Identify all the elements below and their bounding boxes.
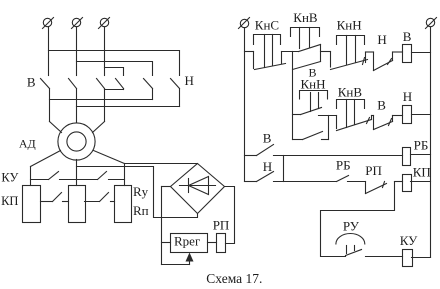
wire phase1 vertical xyxy=(48,28,50,76)
wire phase2 vertical xyxy=(76,28,78,76)
svg-text:Н: Н xyxy=(263,159,272,174)
wire КУ coil to rail xyxy=(412,257,431,259)
svg-text:РБ: РБ xyxy=(414,137,429,152)
wire rung3 xyxy=(274,155,403,157)
contact Н selfhold xyxy=(293,116,329,140)
wire rung4 xyxy=(274,181,337,183)
wire H1 phase1 to contact H5 top xyxy=(49,51,180,76)
wire Rreg left lead xyxy=(162,242,171,244)
wire bus B xyxy=(77,106,180,108)
wire В coil to rail xyxy=(412,52,431,54)
resistor box R3 xyxy=(115,186,132,223)
terminal control left xyxy=(239,18,250,29)
wire РУ to КУ coil xyxy=(366,256,403,258)
contact Н4 xyxy=(144,79,153,100)
svg-text:КнВ: КнВ xyxy=(293,10,318,25)
wire РБ coil to rail xyxy=(411,154,431,156)
wire КП coil to rail xyxy=(411,181,431,183)
contact В selfhold xyxy=(293,62,321,70)
wire stator lead 3 xyxy=(93,122,105,133)
svg-text:РП: РП xyxy=(365,163,382,178)
wire rung1 lead xyxy=(245,52,254,69)
svg-text:Rрег: Rрег xyxy=(174,233,200,248)
wire rung1 КнС to КнВ xyxy=(282,51,299,53)
wire branch vertical xyxy=(292,52,294,140)
wire phase3 vertical xyxy=(104,28,106,76)
contact РП no rung4 xyxy=(366,182,387,194)
pushbutton КнВ nc rung2 xyxy=(337,100,372,131)
wire Н coil to rail xyxy=(412,114,431,116)
terminal L1 xyxy=(43,18,54,29)
svg-text:Rп: Rп xyxy=(133,203,149,218)
wire rung1 КнН to Н xyxy=(366,51,374,53)
svg-text:КП: КП xyxy=(1,194,18,208)
contact РБ no rung4 xyxy=(337,176,366,182)
wire rung1 КнВ to КнН xyxy=(321,51,331,53)
svg-text:В: В xyxy=(263,130,272,145)
terminal L3 xyxy=(99,18,110,29)
wire rotor lead right xyxy=(94,151,125,186)
wire to Н coil xyxy=(393,115,403,117)
resistor box R1 xyxy=(23,186,41,223)
wire H2 phase2 to contact H4 top xyxy=(77,62,153,76)
wire W1 rotor right to rectifier top xyxy=(125,163,198,165)
svg-text:КУ: КУ xyxy=(400,233,418,248)
contact В2 xyxy=(69,79,77,123)
svg-text:В: В xyxy=(377,98,386,113)
svg-text:Н: Н xyxy=(377,32,386,47)
contact КП1 xyxy=(41,193,69,202)
wire wiper feed xyxy=(162,264,190,266)
contact КУ2 xyxy=(77,172,125,180)
contact РУ time relay xyxy=(336,234,365,256)
wire РП to КП coil xyxy=(395,181,403,183)
wire rotor lead middle xyxy=(76,160,78,186)
diode symbol xyxy=(180,177,216,195)
wire rotor lead left xyxy=(31,151,61,186)
resistor box R2 xyxy=(69,186,86,223)
svg-text:КнВ: КнВ xyxy=(338,84,363,99)
relay coil РП xyxy=(217,234,226,253)
coil КП xyxy=(403,175,412,192)
svg-text:РУ: РУ xyxy=(343,218,360,233)
rectifier bridge VD xyxy=(171,164,225,214)
wire rung2 xyxy=(319,115,337,117)
svg-text:В: В xyxy=(403,29,412,44)
svg-text:Rу: Rу xyxy=(133,184,149,199)
wire stator lead 1 xyxy=(50,122,62,133)
wire rung4 lead xyxy=(245,181,257,183)
wire rung2 lead xyxy=(293,114,301,116)
svg-text:КнН: КнН xyxy=(301,77,326,92)
terminal L2 xyxy=(72,18,83,29)
contact В nc rung2 xyxy=(372,116,393,130)
wire РП to rectifier right xyxy=(225,187,235,244)
coil В xyxy=(403,45,412,63)
wire right rail xyxy=(430,28,432,258)
svg-text:Схема 17.: Схема 17. xyxy=(206,271,262,286)
coil РБ xyxy=(403,148,411,166)
motor AD inner circle xyxy=(67,132,86,151)
svg-text:Н: Н xyxy=(185,73,194,88)
contact КУ1 xyxy=(31,172,77,180)
contact КП2 xyxy=(85,193,115,202)
contact В3 xyxy=(97,79,105,122)
wire bus A xyxy=(50,99,153,101)
wire КУ branch xyxy=(321,182,395,257)
contact В1 xyxy=(41,79,50,122)
svg-text:КУ: КУ xyxy=(1,171,18,185)
coil Н xyxy=(403,106,412,124)
terminal control right xyxy=(426,18,437,29)
wire W2 rotor mid to rectifier bottom xyxy=(77,167,198,218)
svg-text:КП: КП xyxy=(413,165,431,180)
svg-text:Н: Н xyxy=(403,89,412,104)
coil КУ xyxy=(403,250,413,267)
contact Н3b xyxy=(105,79,124,90)
wire junction rung3 rung4 xyxy=(283,156,285,182)
contact Н5 xyxy=(171,79,180,107)
svg-text:КнН: КнН xyxy=(337,17,362,32)
wire to В coil xyxy=(393,51,403,53)
contact КнН no rung2 xyxy=(300,91,328,115)
svg-text:КнС: КнС xyxy=(255,18,279,33)
wire rung3 lead xyxy=(245,155,257,157)
svg-text:РБ: РБ xyxy=(336,158,351,173)
svg-text:АД: АД xyxy=(19,136,36,150)
contact Н no rung4 xyxy=(257,172,274,182)
wiper arrow xyxy=(186,253,194,265)
pushbutton КнН xyxy=(331,36,368,70)
svg-text:РП: РП xyxy=(213,218,230,233)
wire Rreg to RP xyxy=(208,242,217,244)
wire node Y rectifier left down xyxy=(162,187,171,265)
svg-text:В: В xyxy=(27,74,36,89)
contact В no rung3 xyxy=(257,145,274,156)
pushbutton КнС xyxy=(254,35,286,70)
pushbutton КнВ xyxy=(291,28,321,62)
contact Н nc rung1 xyxy=(374,52,393,71)
resistor Rreg box xyxy=(171,234,208,253)
motor AD outer circle xyxy=(58,123,95,160)
wire left rail xyxy=(244,28,246,182)
wire bracket top to contact 3b xyxy=(105,68,124,76)
